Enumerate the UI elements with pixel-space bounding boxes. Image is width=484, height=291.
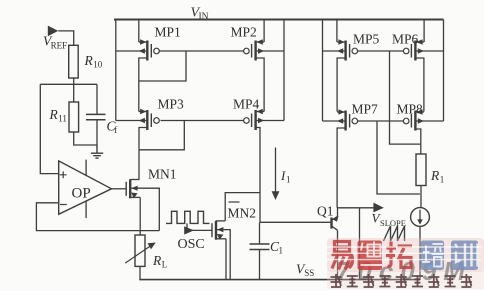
wire MP6 bulk — [416, 50, 443, 52]
label R11 — [49, 107, 67, 124]
op-amp minus sign — [60, 204, 67, 206]
resistor RL arrow — [125, 245, 152, 263]
wire MP1 diode connection — [139, 51, 186, 81]
svg-text:1: 1 — [440, 175, 445, 185]
svg-text:11: 11 — [58, 114, 67, 124]
wire plus input — [40, 84, 58, 173]
wire Cf bottom leg — [96, 120, 98, 145]
wire VSLOPE output — [337, 207, 374, 209]
svg-text:MP1: MP1 — [155, 25, 181, 40]
wire MP5/MP7 bulk rail — [322, 20, 324, 122]
wire MP3-MP4 gate line — [161, 120, 244, 122]
wire MN2 source — [225, 239, 227, 280]
label Cf — [107, 119, 118, 136]
svg-text:OSC: OSC — [178, 237, 205, 252]
capacitor C1 — [250, 244, 270, 250]
watermark stripes — [327, 247, 481, 260]
svg-text:SLOPE: SLOPE — [380, 218, 406, 228]
wire current source to VSS — [419, 226, 421, 279]
label MP3 — [158, 97, 185, 112]
resistor R10 — [69, 45, 79, 78]
wire MN1 source to RL — [139, 197, 141, 235]
wire MP7/MP8 gate bias drop — [377, 121, 420, 194]
wire MP6 drain to MP8 source — [415, 58, 424, 112]
svg-text:MP6: MP6 — [392, 32, 419, 47]
label RL — [152, 253, 167, 270]
label MP8 — [397, 102, 424, 117]
transistor MP2 — [244, 39, 265, 60]
wire Q1 base — [260, 221, 330, 223]
label MN1 — [148, 167, 177, 182]
transistor Q1 — [332, 208, 339, 280]
node VREF source marker — [48, 26, 58, 37]
label OP — [72, 186, 91, 202]
label C1 — [270, 239, 283, 256]
wire MP3/MP4 gate to MN1 drain — [139, 121, 184, 150]
wire MP5-MP6 gate line — [358, 50, 404, 52]
transistor MP5 — [337, 39, 358, 60]
watermark logo char yi — [332, 242, 353, 270]
wire MP5/MP6 gate bias drop — [390, 51, 421, 144]
wire MP1 source to VIN — [138, 20, 140, 43]
wire feedback top — [40, 83, 97, 85]
wire MP5 source to VIN — [336, 20, 338, 43]
wire right bulk rail (VIN to MP2/MP4 bulks) — [283, 20, 285, 121]
wire MP5 drain to MP7 source — [337, 58, 346, 112]
wire RL bottom — [139, 266, 141, 279]
svg-text:R: R — [430, 168, 440, 183]
wire MN2 bulk — [217, 230, 230, 280]
ground — [91, 145, 103, 158]
wire C1 bottom — [259, 250, 261, 280]
wire MP7 drain — [337, 128, 346, 208]
transistor MP8 — [403, 109, 424, 130]
watermark tagline — [331, 274, 472, 287]
node VIN label — [191, 6, 209, 23]
svg-text:REF: REF — [51, 41, 68, 51]
watermark logo char pei — [421, 241, 445, 271]
wire MP6/MP8 bulk rail — [443, 20, 445, 122]
label MP5 — [353, 32, 380, 47]
svg-text:f: f — [114, 125, 117, 135]
capacitor Cf — [86, 114, 106, 119]
wire MP4 bulk — [257, 120, 284, 122]
resistor R1 — [416, 154, 426, 186]
transistor MP4 — [244, 109, 265, 130]
wire OSC stem — [186, 223, 188, 230]
node I1 current arrow — [275, 148, 277, 193]
watermark logo char xun — [451, 241, 478, 271]
wire MP1 bulk — [116, 50, 147, 52]
label MN2 — [228, 206, 257, 221]
wire R10 to R11 — [73, 78, 75, 102]
label MP2 — [231, 25, 257, 40]
wire MP6 source to VIN — [423, 20, 425, 43]
wire MP7-MP8 gate line — [358, 120, 404, 122]
wire MN2 drain — [225, 193, 260, 221]
op-amp OP — [59, 161, 112, 214]
label R1 — [430, 168, 444, 185]
svg-text:MP4: MP4 — [233, 97, 260, 112]
wire VSS bottom rail — [139, 279, 420, 281]
wire MN1 bulk — [131, 188, 159, 230]
label VSS — [296, 262, 314, 279]
transistor MP1 — [139, 39, 160, 60]
wire MP8 drain to R1 — [415, 129, 420, 154]
wire VIN top rail — [114, 19, 444, 21]
svg-text:MP5: MP5 — [353, 32, 380, 47]
transistor MN1 — [126, 179, 140, 198]
current source I — [411, 208, 430, 227]
watermark logo char di — [358, 241, 385, 271]
wire MP2 source to VIN — [263, 20, 265, 43]
label MP6 — [392, 32, 419, 47]
wire OP output to MN1 gate — [112, 188, 127, 190]
svg-text:MN1: MN1 — [148, 167, 177, 182]
wire MP2 bulk — [257, 50, 284, 52]
svg-text:L: L — [162, 260, 168, 270]
label MP1 — [155, 25, 181, 40]
resistor RL (variable) — [135, 235, 145, 266]
label MP7 — [352, 102, 379, 117]
wire MP1-MP2 gate line — [159, 50, 243, 52]
transistor MP6 — [403, 39, 424, 60]
wire MP3 bulk — [116, 120, 147, 122]
wire MP3 drain — [139, 128, 147, 150]
node sawtooth waveform — [384, 226, 405, 241]
label MP4 — [233, 97, 260, 112]
label VSLOPE — [372, 211, 406, 229]
oscillator OSC pulse waveform — [166, 211, 210, 223]
wire MN1 drain — [138, 150, 140, 180]
svg-text:10: 10 — [93, 60, 103, 70]
label VREF — [43, 34, 67, 51]
svg-text:MP7: MP7 — [352, 102, 379, 117]
wire MP5 bulk — [323, 50, 345, 52]
node OSC arrow — [184, 226, 194, 234]
transistor MN2 — [212, 221, 226, 240]
wire R11 bottom — [74, 132, 97, 145]
svg-text:1: 1 — [286, 175, 291, 185]
label I1 — [280, 168, 291, 185]
wire MP2 drain to MP4 source — [256, 58, 265, 112]
label Q1 — [317, 204, 334, 219]
capacitor C1 stem — [259, 222, 261, 243]
wire R1 bottom — [420, 186, 422, 208]
resistor R11 — [69, 102, 79, 132]
transistor MP7 — [337, 109, 358, 130]
svg-text:R: R — [84, 53, 94, 68]
transistor MP3 — [139, 109, 160, 130]
wire left bulk rail (VIN to MP1/MP3 bulks) — [115, 20, 117, 121]
svg-text:R: R — [49, 107, 59, 122]
svg-text:Q1: Q1 — [317, 204, 334, 219]
svg-text:SS: SS — [304, 268, 314, 278]
wire Cf top leg — [96, 84, 98, 114]
wire OSC output to MN2 gate — [187, 229, 212, 231]
wire MP8 bulk — [416, 120, 443, 122]
wire VSLOPE node to VSS — [359, 208, 361, 280]
watermark — [327, 238, 484, 289]
label R10 — [84, 53, 103, 70]
wire VREF to R10 — [58, 31, 73, 45]
svg-text:MP3: MP3 — [158, 97, 185, 112]
wire MP4 drain — [256, 128, 260, 223]
svg-text:OP: OP — [72, 186, 91, 202]
wire MP7 bulk — [323, 120, 345, 122]
label MN2 overbar — [229, 201, 240, 203]
op-amp plus sign — [60, 171, 67, 178]
watermark logo char tuo — [386, 242, 412, 268]
svg-text:MP2: MP2 — [231, 25, 257, 40]
wire minus input feedback — [36, 203, 159, 231]
svg-text:MP8: MP8 — [397, 102, 424, 117]
label OSC — [178, 237, 205, 252]
op-amp power pins — [85, 160, 87, 218]
svg-text:R: R — [152, 253, 162, 268]
svg-text:IN: IN — [199, 12, 209, 22]
svg-text:1: 1 — [279, 246, 284, 256]
svg-text:MN2: MN2 — [228, 206, 257, 221]
wire MP1 drain to MP3 source — [139, 58, 148, 112]
node VSLOPE arrow — [373, 203, 383, 213]
